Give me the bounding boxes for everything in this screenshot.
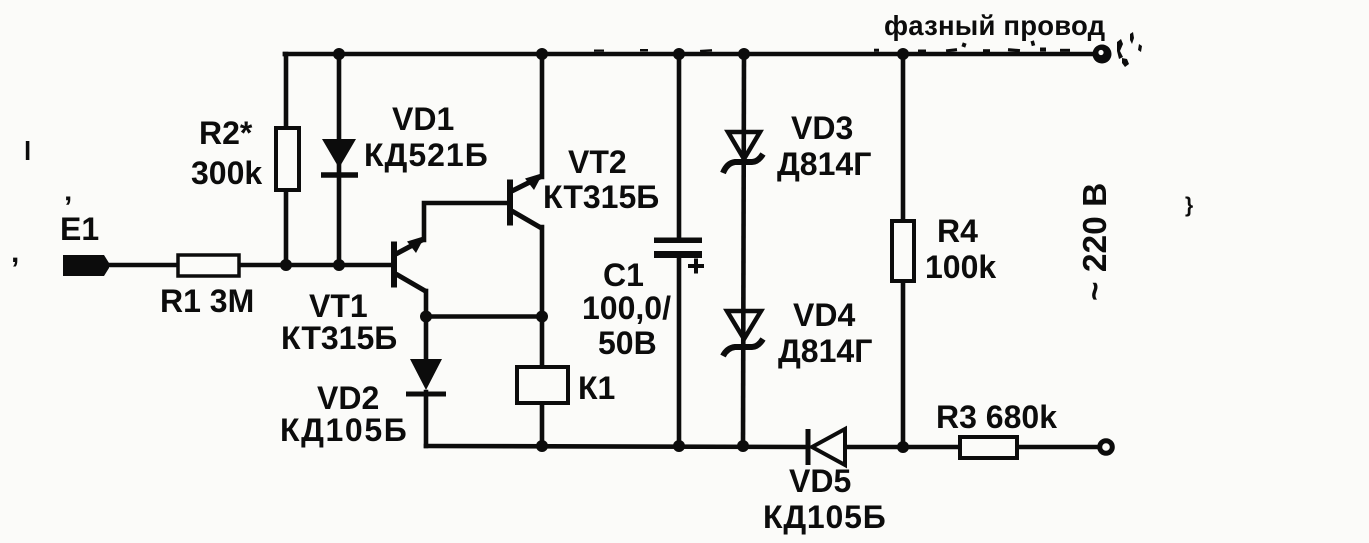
svg-text:КТ315Б: КТ315Б bbox=[281, 320, 397, 356]
wire: VT2 collector down to K1 bbox=[540, 227, 545, 367]
junction: C1 top rail bbox=[673, 48, 685, 60]
svg-text:КД105Б: КД105Б bbox=[280, 412, 408, 448]
wire: VT1 emitter to VT2 base bbox=[424, 203, 507, 240]
zener VD4 bbox=[723, 311, 763, 356]
wire: VT1 collector to node A bbox=[424, 291, 429, 318]
wire: C1 bottom lead bbox=[677, 258, 682, 446]
wire: bottom rail middle segment bbox=[846, 445, 960, 450]
junction: VD1 main wire bbox=[333, 259, 345, 271]
svg-text:КД521Б: КД521Б bbox=[364, 137, 489, 173]
junction: node A bbox=[420, 311, 432, 323]
capacitor C1 bbox=[654, 238, 704, 274]
diode VD5 bbox=[808, 429, 845, 465]
svg-text:100k: 100k bbox=[925, 249, 996, 285]
svg-text:l: l bbox=[24, 136, 31, 166]
junction: node B bbox=[536, 311, 548, 323]
relay K1 bbox=[517, 367, 568, 403]
svg-text:VD5: VD5 bbox=[789, 463, 851, 499]
wire: VD2 top lead bbox=[424, 317, 429, 360]
svg-text:VD1: VD1 bbox=[392, 101, 454, 137]
svg-text:фазный провод: фазный провод bbox=[884, 10, 1105, 41]
junction: VD3 top rail bbox=[738, 48, 750, 60]
junction: VD4 bottom rail bbox=[737, 440, 749, 452]
wire: R2 branch upper bbox=[285, 54, 286, 128]
wire: VT2 emitter to top rail bbox=[540, 54, 545, 177]
wire: bottom rail right segment bbox=[1017, 445, 1099, 450]
junction: R4 VD5 R3 bottom rail bbox=[897, 441, 909, 453]
transistor VT1 bbox=[392, 236, 428, 292]
svg-text:}: } bbox=[1185, 194, 1193, 217]
resistor R1 bbox=[178, 255, 239, 276]
svg-text:50В: 50В bbox=[598, 325, 657, 361]
junction: R4 top rail bbox=[897, 48, 909, 60]
wire: R4 bottom lead bbox=[901, 281, 906, 447]
svg-text:~ 220 В: ~ 220 В bbox=[1077, 183, 1114, 301]
stray mark: rail scan noise bbox=[594, 40, 1070, 52]
zener VD3 bbox=[723, 132, 763, 173]
wire: R1 to VT1 base bbox=[239, 263, 392, 268]
svg-text:С1: С1 bbox=[603, 257, 644, 293]
wire: VD3 VD4 branch bbox=[743, 54, 744, 446]
wire: node A to node B bbox=[426, 314, 542, 319]
svg-text:VD4: VD4 bbox=[793, 297, 855, 333]
diode VD2 bbox=[406, 359, 446, 394]
svg-text:VD2: VD2 bbox=[317, 380, 379, 416]
svg-text:VT2: VT2 bbox=[568, 144, 627, 180]
resistor R4 bbox=[892, 221, 914, 281]
svg-text:’: ’ bbox=[64, 191, 72, 224]
wire: bottom rail left segment bbox=[426, 446, 806, 447]
junction: VT2 emitter top rail bbox=[536, 48, 548, 60]
svg-text:Д814Г: Д814Г bbox=[777, 146, 871, 182]
svg-text:К1: К1 bbox=[578, 370, 615, 406]
wire: R4 top lead bbox=[901, 54, 906, 221]
svg-text:КТ315Б: КТ315Б bbox=[543, 179, 659, 215]
wire: R2 branch lower bbox=[284, 190, 289, 265]
svg-text:,: , bbox=[11, 236, 19, 269]
wire: VD2 bottom lead to bottom rail bbox=[424, 392, 429, 446]
junction: VD1 top rail bbox=[333, 48, 345, 60]
junction: R2 main wire bbox=[280, 259, 292, 271]
svg-text:КД105Б: КД105Б bbox=[763, 499, 887, 535]
svg-text:R1 3М: R1 3М bbox=[160, 283, 254, 319]
svg-text:VT1: VT1 bbox=[309, 288, 368, 324]
wire: E1 to R1 bbox=[104, 263, 178, 268]
resistor R3 bbox=[960, 437, 1017, 458]
svg-text:100,0/: 100,0/ bbox=[582, 290, 671, 326]
svg-text:300k: 300k bbox=[191, 155, 262, 191]
wire: VD1 branch bbox=[337, 54, 342, 265]
junction: C1 bottom rail bbox=[673, 440, 685, 452]
stray mark: speckles near top terminal bbox=[1117, 32, 1142, 67]
transistor VT2 bbox=[508, 173, 544, 229]
svg-text:R3 680k: R3 680k bbox=[936, 399, 1057, 435]
terminal: bottom bbox=[1100, 441, 1113, 454]
wire: K1 to bottom rail bbox=[540, 403, 545, 446]
diode VD1 bbox=[321, 139, 358, 175]
terminal: phase wire top bbox=[1093, 45, 1112, 64]
svg-text:VD3: VD3 bbox=[791, 110, 853, 146]
wire: C1 top lead bbox=[677, 54, 682, 239]
resistor R2 bbox=[276, 128, 299, 190]
junction: K1 bottom rail bbox=[536, 440, 548, 452]
wire: top phase rail bbox=[285, 52, 1096, 57]
svg-text:Д814Г: Д814Г bbox=[778, 333, 872, 369]
svg-text:R4: R4 bbox=[937, 213, 978, 249]
svg-text:R2*: R2* bbox=[199, 115, 253, 151]
electrode E1 bbox=[63, 255, 109, 276]
